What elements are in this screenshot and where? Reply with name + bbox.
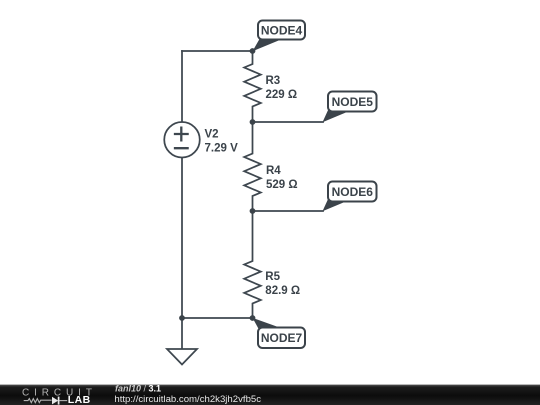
svg-text:R5: R5 xyxy=(265,271,280,283)
svg-text:LAB: LAB xyxy=(68,394,91,405)
svg-text:7.29 V: 7.29 V xyxy=(205,143,239,155)
svg-text:82.9 Ω: 82.9 Ω xyxy=(265,285,300,297)
svg-text:NODE5: NODE5 xyxy=(332,95,374,109)
svg-text:NODE4: NODE4 xyxy=(261,23,303,37)
svg-text:R3: R3 xyxy=(266,75,281,87)
svg-text:529 Ω: 529 Ω xyxy=(266,179,298,191)
svg-text:fanl10 / 3.1: fanl10 / 3.1 xyxy=(115,384,161,394)
svg-text:NODE7: NODE7 xyxy=(261,331,303,345)
svg-text:http://circuitlab.com/ch2k3jh2: http://circuitlab.com/ch2k3jh2vfb5c xyxy=(114,394,261,405)
svg-text:229 Ω: 229 Ω xyxy=(266,89,298,101)
svg-text:R4: R4 xyxy=(266,165,281,177)
svg-text:V2: V2 xyxy=(205,129,219,141)
svg-text:NODE6: NODE6 xyxy=(332,185,374,199)
